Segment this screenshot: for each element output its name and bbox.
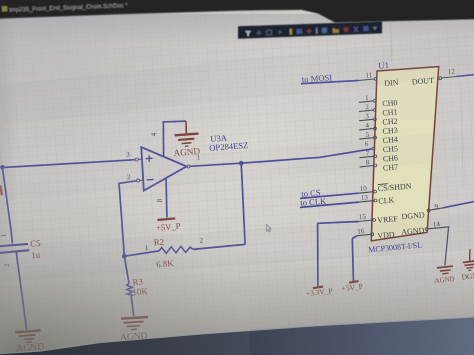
wire: VREF to +3.3V_P: [318, 222, 359, 287]
wire: to MOSI net: [301, 81, 359, 84]
ground AGND (R3): [121, 317, 148, 330]
wire: R2 pin2 to feedback corner: [193, 244, 245, 249]
subtle moire bands: [0, 35, 474, 282]
wire: R3 to AGND: [131, 296, 134, 316]
ground AGND (bottom left): [15, 331, 40, 343]
pin 10 CS/SHDN stub: [359, 184, 377, 193]
top black tab bar: [0, 0, 474, 23]
wire: op-amp pin 8 to +5V_P: [165, 179, 168, 218]
wire: op-amp pin 2 feedback left segment: [119, 181, 137, 257]
pin 14 AGND (right): [425, 220, 441, 230]
capacitor C5: [0, 244, 29, 253]
ground DGND (right edge): [461, 249, 474, 281]
junction: output node: [239, 161, 244, 166]
op-amp U3A: [135, 147, 190, 190]
wire: op-amp pin 4 to AGND: [163, 121, 186, 156]
wire: op-amp output pin 1: [190, 163, 241, 166]
pin 15 VREF stub: [359, 212, 376, 221]
mouse cursor: [266, 225, 271, 233]
wire: junction to R3: [124, 256, 129, 283]
wire: output to CH5 pin of U1: [241, 149, 372, 163]
wire: R2 pin1 to junction: [124, 251, 159, 256]
pin name CS/SHDN with overline: [377, 182, 412, 194]
wire: pin14 to AGND symbol: [428, 227, 449, 266]
pin 9 DGND (right): [427, 202, 443, 211]
pin 16 VDD stub: [357, 227, 374, 236]
ground AGND (op-amp pin 4): [175, 121, 199, 146]
wire: VDD to +5V_P: [352, 236, 357, 281]
ground AGND (pin 14): [437, 266, 453, 274]
wire: C5 top segment: [2, 168, 12, 244]
pin 13 CLK stub: [359, 193, 377, 202]
resistor R2: [159, 246, 193, 253]
resistor R3: [127, 283, 133, 296]
wire: to CS net: [300, 193, 359, 198]
faint vertical line near right: [461, 88, 463, 188]
tab document icon: [2, 6, 7, 11]
floating toolbar: [238, 21, 382, 38]
pin 11 DIN stub: [359, 71, 377, 80]
pin names CH0..CH7: [382, 98, 398, 173]
wire: +input net from left edge to op-amp pin 3: [0, 160, 135, 170]
power +5V_P (bottom): [341, 281, 363, 293]
pins CH0-CH7 stubs and numbers: [359, 101, 374, 167]
power +3.3V_P: [306, 286, 333, 298]
partially visible maroon mark at left edge: [0, 186, 2, 196]
monitor bezel wedge (bottom): [0, 317, 474, 355]
wire: DOUT net to right edge: [456, 75, 474, 77]
wire: feedback vertical to R2: [241, 163, 245, 244]
power +5V_P (op-amp pin 8): [156, 218, 181, 232]
colour tints: [0, 180, 250, 355]
junction: feedback node: [122, 254, 127, 259]
faint sheet edge line below toolbar: [391, 22, 392, 63]
junction at left edge: [0, 165, 5, 170]
wire: C5 bottom to ground: [16, 252, 26, 330]
pin 12 DOUT stub: [439, 67, 456, 79]
wire: DGND net to right edge: [443, 201, 474, 207]
toolbar icons: [245, 25, 377, 36]
wire: to CLK net: [300, 202, 359, 207]
IC U1 body: [371, 67, 438, 241]
